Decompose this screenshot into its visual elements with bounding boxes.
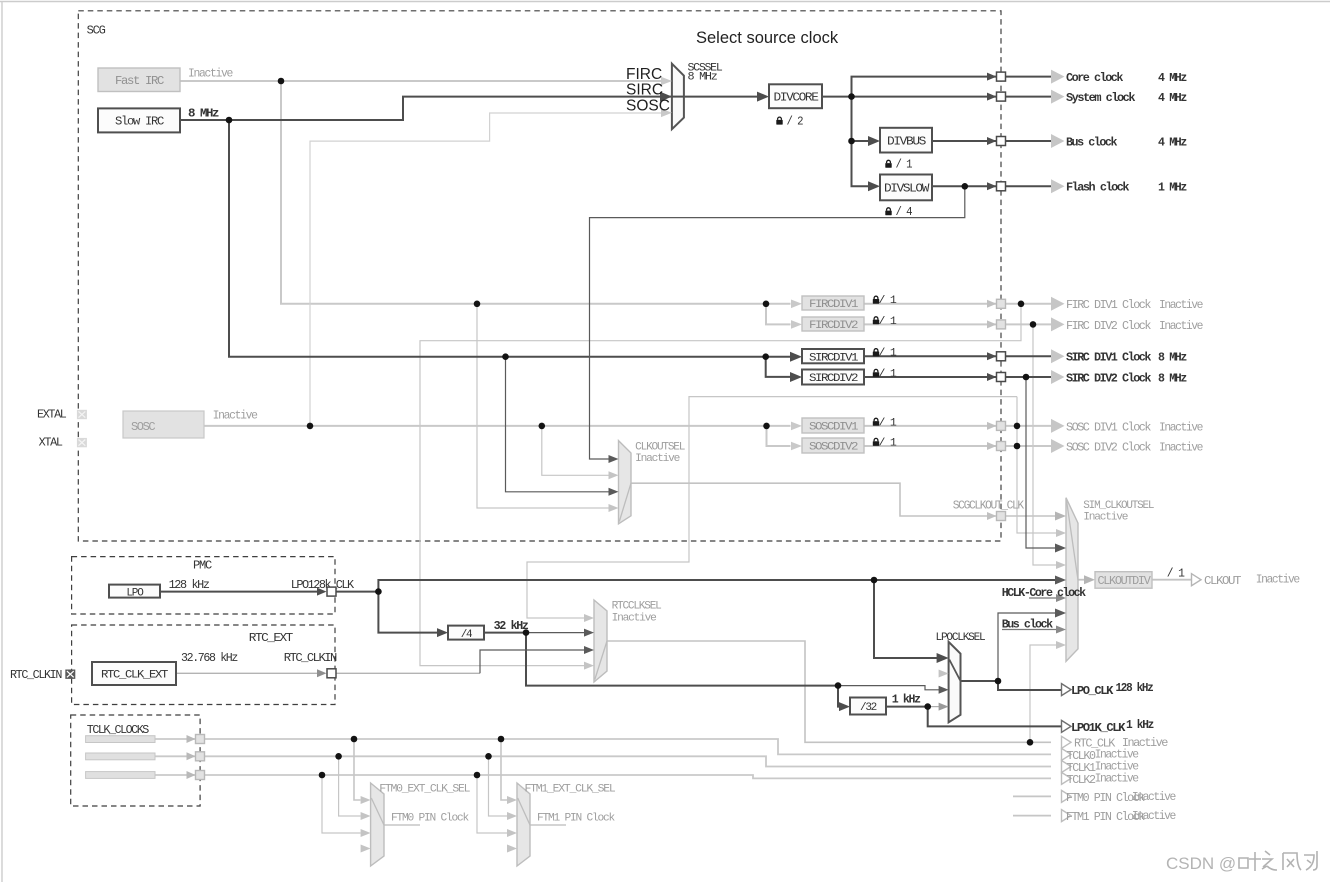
output FTM1 PIN Clock: [1062, 810, 1072, 822]
lock SOSCDIV1: [873, 418, 879, 426]
output CLKOUT: [1192, 574, 1202, 586]
wire CLKOUTSEL output to SCGCLKOUT_CLK pin to SIM input 1: [631, 483, 997, 516]
box Slow IRC (active): [98, 108, 180, 132]
svg-text:/ 4: / 4: [896, 205, 913, 219]
wire SIRCDIV2 output to SIRC DIV2 Clock: [864, 376, 997, 378]
svg-text:/ 1: / 1: [879, 417, 898, 429]
output SIRC DIV2 Clock: [1051, 370, 1065, 384]
wire FTM0 mux output stub: [384, 824, 420, 826]
svg-text:LPO_CLK: LPO_CLK: [1071, 684, 1114, 698]
wire TCLK1: [155, 755, 196, 757]
output TCLK2: [1062, 772, 1072, 784]
svg-text:/ 1: / 1: [879, 316, 898, 328]
junction SOSC-CLKOUTSEL: [539, 423, 546, 430]
svg-text:/ 1: / 1: [1167, 567, 1185, 581]
junction FIRC wire: [278, 78, 285, 85]
mux RTCCLKSEL: [594, 600, 607, 682]
wire /32 output 1kHz: [886, 706, 928, 708]
arrows SIM_CLKOUTSEL inputs: [1055, 512, 1066, 521]
box CLKOUTDIV: [1095, 572, 1152, 589]
svg-text:128 kHz: 128 kHz: [1116, 681, 1154, 695]
wire RTCCLKSEL output to RTC_CLK: [607, 641, 1051, 742]
junction RTC_CLK: [1027, 739, 1034, 746]
wire TCLK2 to FTM0 mux input 3: [322, 775, 361, 833]
xpin EXTAL: [77, 410, 87, 419]
wire TCLK0 to FTM1 mux input 1: [501, 739, 507, 800]
wire FTM1 PIN Clock output stub: [1013, 815, 1051, 817]
output TCLK1: [1062, 761, 1072, 773]
box FIRCDIV1: [802, 296, 864, 310]
wire Bus clock stub to SIM input 8: [1002, 629, 1059, 631]
wire FIRCDIV1 clock feedback to RTCCLKSEL input 4: [420, 304, 1021, 666]
svg-text:HCLK-Core clock: HCLK-Core clock: [1002, 586, 1086, 600]
junction SOSC-SCSSEL: [307, 423, 314, 430]
page top border: [0, 1, 1330, 3]
svg-text:CLKOUTSEL: CLKOUTSEL: [635, 441, 685, 453]
svg-text:DIVCORE: DIVCORE: [774, 91, 819, 105]
wire SOSCDIV2 output to SOSC DIV2 Clock: [864, 445, 997, 447]
svg-text:Inactive: Inactive: [188, 67, 233, 81]
junction SIRC DIV2 out: [1023, 374, 1030, 381]
junction TCLK0-FTM1: [498, 736, 505, 743]
svg-text:FIRCDIV1: FIRCDIV1: [809, 299, 859, 311]
svg-text:PMC: PMC: [193, 559, 212, 573]
output LPO1K_CLK: [1062, 720, 1072, 732]
wire SOSCDIV1 output to SOSC DIV1 Clock: [864, 425, 997, 427]
svg-text:FTM0 PIN Clock: FTM0 PIN Clock: [391, 813, 470, 825]
svg-text:FTM0_EXT_CLK_SEL: FTM0_EXT_CLK_SEL: [379, 784, 470, 796]
junction TCLK0-FTM0: [351, 736, 358, 743]
lock FIRCDIV2: [873, 317, 879, 325]
svg-text:Flash clock: Flash clock: [1066, 181, 1129, 195]
junction 1kHz: [924, 703, 931, 710]
svg-text:SIRC DIV1 Clock: SIRC DIV1 Clock: [1066, 351, 1151, 365]
svg-text:LPOCLKSEL: LPOCLKSEL: [936, 632, 986, 644]
svg-text:Fast IRC: Fast IRC: [115, 74, 164, 88]
svg-text:/ 1: / 1: [879, 368, 898, 380]
wire FIRCDIV2 branch: [766, 304, 791, 325]
TCLK pin arrows: [187, 735, 196, 743]
svg-text:CLKOUTDIV: CLKOUTDIV: [1098, 575, 1151, 588]
wire SIRCDIV2 branch: [766, 357, 791, 377]
pin arrow at SCG border y=516: [987, 512, 997, 520]
svg-text:/ 2: / 2: [787, 114, 804, 128]
arrow DIVCORE input: [757, 92, 769, 102]
svg-text:SOSCDIV1: SOSCDIV1: [809, 422, 859, 434]
RTC_EXT container dashed: [72, 625, 335, 705]
wire RTC_CLK_EXT output to RTC_CLKIN pin: [176, 672, 322, 674]
arrows FIRCDIV inputs: [791, 300, 802, 309]
SCG container dashed: [78, 11, 1001, 541]
wire /4 output 32kHz: [484, 632, 526, 634]
svg-text:TCLK2: TCLK2: [1067, 774, 1097, 787]
lock SIRCDIV2: [873, 369, 879, 377]
junction DIVBUS feed: [848, 138, 855, 145]
svg-text:LPO128k_CLK: LPO128k_CLK: [291, 578, 355, 592]
svg-text:Inactive: Inactive: [1159, 420, 1203, 434]
pin arrow at SCG border y=141: [987, 137, 997, 145]
pin LPO128k_CLK: [317, 588, 327, 596]
box SOSC (inactive): [123, 411, 204, 438]
wire FIRCDIV1 output to FIRC DIV1 Clock: [864, 303, 997, 305]
PMC container dashed: [72, 557, 335, 614]
svg-text:SIRC DIV2 Clock: SIRC DIV2 Clock: [1066, 371, 1151, 385]
wire FIRC down to CLKOUTSEL input 4: [477, 304, 611, 508]
box Fast IRC (inactive): [98, 68, 180, 92]
pin arrow at SCG border y=446: [987, 442, 997, 450]
svg-text:FIRC DIV2 Clock: FIRC DIV2 Clock: [1066, 319, 1151, 333]
wire 32kHz down to /32 divider: [526, 633, 842, 707]
wire DIVSLOW feedback to CLKOUTSEL input 1: [590, 186, 965, 459]
svg-text:FIRC: FIRC: [626, 66, 662, 83]
pin arrow at SCG border y=356.3: [987, 352, 997, 360]
svg-text:/ 1: / 1: [896, 158, 913, 172]
arrows SIRCDIV inputs: [790, 352, 802, 362]
junction LPO128k: [375, 588, 382, 595]
svg-text:RTC_EXT: RTC_EXT: [249, 631, 293, 645]
wire 32kHz to RTCCLKSEL input 2: [526, 632, 587, 634]
svg-text:DIVSLOW: DIVSLOW: [884, 182, 930, 196]
pin arrow at SCG border y=76.6: [987, 73, 997, 81]
xpin RTC_CLKIN: [65, 670, 75, 679]
arrows SOSCDIV inputs: [791, 422, 802, 431]
svg-text:/ 1: / 1: [879, 437, 898, 449]
svg-text:SCGCLKOUT_CLK: SCGCLKOUT_CLK: [953, 500, 1024, 513]
svg-text:RTC_CLKIN: RTC_CLKIN: [10, 668, 62, 682]
wire SIM output to CLKOUTDIV to CLKOUT: [1078, 579, 1091, 581]
junction SOSCDIV2 feed: [763, 423, 770, 430]
wire SIRC feed down to SIRCDIV1: [229, 120, 791, 357]
junction SOSC DIV2 out: [1014, 443, 1021, 450]
svg-text:Inactive: Inactive: [1159, 319, 1203, 333]
svg-text:FIRCDIV2: FIRCDIV2: [809, 320, 858, 332]
wire TCLK2: [155, 774, 196, 776]
lock DIVBUS /1: [885, 160, 891, 168]
arrow into /4: [437, 628, 448, 637]
box FIRCDIV2: [802, 317, 864, 331]
svg-text:SOSC DIV2 Clock: SOSC DIV2 Clock: [1066, 440, 1151, 454]
box LPO: [109, 585, 160, 598]
output Core clock: [1051, 70, 1065, 84]
svg-text:4 MHz: 4 MHz: [1158, 91, 1187, 105]
svg-text:/32: /32: [860, 702, 877, 714]
svg-text:4 MHz: 4 MHz: [1158, 135, 1187, 149]
wire TCLK2 to FTM1 mux input 3: [477, 775, 507, 833]
output TCLK0: [1062, 748, 1072, 760]
arrow DIVBUS input: [868, 136, 880, 146]
pin arrow at SCG border y=324.4: [987, 320, 997, 328]
mux FTM1_EXT_CLK_SEL: [517, 783, 530, 866]
arrows FTM0 mux inputs: [361, 796, 371, 804]
svg-text:/4: /4: [461, 629, 473, 641]
wire DIVSLOW output to Flash clock: [932, 185, 997, 187]
TCLK_CLOCKS container dashed: [71, 715, 200, 806]
junction FIRC-CLKOUTSEL: [474, 301, 481, 308]
junction LPO_CLK: [995, 678, 1002, 685]
svg-text:Core clock: Core clock: [1066, 71, 1123, 85]
box SOSCDIV1: [802, 418, 864, 433]
wire branch down to DIVBUS and DIVSLOW: [852, 97, 872, 187]
junction FIRCDIV2 feed: [763, 301, 770, 308]
svg-text:Inactive: Inactive: [635, 453, 680, 465]
svg-text:8 MHz: 8 MHz: [188, 107, 219, 121]
output SOSC DIV2 Clock: [1051, 439, 1065, 453]
wire FIRCDIV2 output to FIRC DIV2 Clock: [864, 323, 997, 325]
lock FIRCDIV1: [873, 296, 879, 304]
arrow SIRC into SCSSEL: [660, 92, 672, 102]
mux FTM0_EXT_CLK_SEL: [371, 783, 384, 866]
lock DIVSLOW /4: [885, 208, 891, 216]
svg-text:TCLK0: TCLK0: [1067, 750, 1097, 763]
TCLK bar 3: [86, 772, 155, 779]
junction SIRC wire: [226, 117, 233, 124]
mux SCSSEL: [672, 64, 684, 130]
pin arrow at SCG border y=377: [987, 373, 997, 381]
svg-text:RTC_CLKIN: RTC_CLKIN: [284, 651, 337, 665]
svg-text:8 MHz: 8 MHz: [1158, 371, 1187, 385]
wire SOSC up to SCSSEL mux SOSC input: [310, 113, 663, 426]
wire SOSC DIV1 to RTCCLKSEL input 1 (channel y=397): [527, 397, 1017, 618]
svg-text:System clock: System clock: [1066, 91, 1135, 105]
wire 1kHz to LPOCLKSEL input 4: [928, 706, 939, 708]
junction 32kHz: [523, 629, 530, 636]
output SIRC DIV1 Clock: [1051, 349, 1065, 363]
mux SIM_CLKOUTSEL: [1066, 498, 1078, 662]
svg-text:CLKOUT: CLKOUT: [1204, 574, 1241, 588]
TCLK bar 2: [86, 753, 155, 760]
output FTM0 PIN Clock: [1062, 790, 1072, 802]
wire SOSCDIV2 branch: [767, 426, 791, 446]
wire Slow IRC 8MHz to SCSSEL mux (through) to DIVCORE: [180, 97, 761, 120]
output Bus clock: [1051, 134, 1065, 148]
svg-text:SIM_CLKOUTSEL: SIM_CLKOUTSEL: [1083, 500, 1154, 512]
svg-text:Select source clock: Select source clock: [696, 29, 839, 47]
box DIVSLOW: [880, 175, 932, 201]
svg-text:Inactive: Inactive: [213, 409, 258, 423]
junction FIRC DIV2 out: [1030, 321, 1037, 328]
mux LPOCLKSEL: [949, 642, 961, 723]
wire LPOCLKSEL output to LPO_CLK: [961, 681, 1062, 690]
wire HCLK-Core clock stub to SIM input 6: [1029, 597, 1059, 599]
wire SOSC inactive output to SOSCDIV1: [204, 425, 791, 427]
svg-text:LPO: LPO: [126, 587, 144, 599]
box SIRCDIV1: [802, 349, 864, 363]
svg-text:8 MHz: 8 MHz: [1158, 351, 1187, 365]
wire TCLK0 to FTM0 mux input 1: [354, 739, 361, 800]
svg-text:4 MHz: 4 MHz: [1158, 71, 1187, 85]
wire LPO128k to SIM input 5 (HCLK row): [336, 580, 1059, 592]
junction DIVCORE out: [848, 93, 855, 100]
junction TCLK1-FTM1: [485, 753, 492, 760]
svg-text:Bus clock: Bus clock: [1002, 618, 1053, 632]
mux CLKOUTSEL: [619, 441, 632, 524]
arrow DIVSLOW input: [868, 181, 880, 191]
svg-text:SIRC: SIRC: [626, 82, 663, 99]
svg-text:Inactive: Inactive: [1159, 440, 1203, 454]
svg-text:SOSC: SOSC: [131, 420, 155, 434]
svg-text:FIRC DIV1 Clock: FIRC DIV1 Clock: [1066, 298, 1151, 312]
svg-text:RTCCLKSEL: RTCCLKSEL: [612, 601, 662, 613]
svg-text:1 MHz: 1 MHz: [1158, 181, 1187, 195]
svg-text:Inactive: Inactive: [1132, 790, 1176, 804]
arrows LPOCLKSEL inputs: [937, 653, 949, 663]
wire LPO output to LPO128k_CLK pin: [160, 591, 322, 593]
wire Fast IRC inactive to mux FIRC input: [180, 80, 663, 82]
svg-text:/ 1: / 1: [879, 295, 898, 307]
svg-text:SOSCDIV2: SOSCDIV2: [809, 442, 858, 454]
output Flash clock: [1051, 179, 1065, 193]
svg-text:Inactive: Inactive: [1083, 512, 1128, 524]
pin arrow at SCG border y=425.9: [987, 422, 997, 430]
wire DIVCORE output branches: [822, 96, 997, 98]
svg-text:Slow IRC: Slow IRC: [115, 115, 164, 129]
wire FIRCDIV2 clock down to SIM_CLKOUTSEL input 4: [1033, 324, 1059, 565]
junction SIRCDIV2 feed: [762, 353, 769, 360]
svg-text:SOSC: SOSC: [626, 98, 670, 115]
output FIRC DIV2 Clock: [1051, 317, 1065, 331]
arrow into /32: [839, 702, 850, 711]
wire SOSC down to CLKOUTSEL input 2: [542, 426, 611, 475]
junction 32kHz-div32: [835, 682, 842, 689]
pin arrow at SCG border y=96.6: [987, 93, 997, 101]
svg-text:SCG: SCG: [87, 24, 106, 38]
svg-text:EXTAL: EXTAL: [37, 409, 67, 422]
junction SOSC DIV1 out: [1014, 423, 1021, 430]
svg-text:Inactive: Inactive: [612, 612, 657, 624]
wire FTM0 PIN Clock output stub: [1013, 795, 1051, 797]
box SOSCDIV2: [802, 438, 864, 453]
svg-text:CSDN @: CSDN @: [1166, 854, 1236, 873]
svg-text:/ 1: / 1: [879, 348, 898, 360]
svg-text:FTM1 PIN Clock: FTM1 PIN Clock: [537, 813, 616, 825]
box SIRCDIV2: [802, 370, 864, 385]
page left border: [1, 1, 3, 882]
box DIVCORE: [769, 84, 822, 108]
pin RTC_CLKIN: [317, 669, 327, 677]
junction LPO-LPOCLKSEL: [871, 577, 878, 584]
junction SIRC-CLKOUTSEL: [502, 353, 509, 360]
svg-text:32.768 kHz: 32.768 kHz: [181, 651, 238, 665]
wire FIRC branch down to FIRCDIV feed: [281, 81, 791, 304]
svg-text:Inactive: Inactive: [1095, 772, 1139, 786]
wire SIRC to CLKOUTSEL input 3: [506, 357, 611, 492]
svg-text:Bus clock: Bus clock: [1066, 135, 1117, 149]
svg-text:1 kHz: 1 kHz: [892, 693, 921, 707]
box /32: [850, 698, 886, 715]
wire RTC_CLK up to SIM input 9: [1030, 645, 1059, 742]
svg-text:LPO1K_CLK: LPO1K_CLK: [1071, 721, 1126, 735]
wire RTC_CLKIN to RTCCLKSEL input 3: [336, 672, 480, 674]
wire LPO to /4 divider: [378, 592, 439, 633]
svg-text:RTC_CLK_EXT: RTC_CLK_EXT: [101, 670, 169, 682]
wire LPO_CLK up to SIM input 7: [998, 613, 1059, 681]
arrows CLKOUTSEL inputs: [609, 455, 619, 463]
wire 1kHz down to LPO1K_CLK: [928, 707, 1061, 727]
box DIVBUS: [880, 128, 932, 153]
wire TCLK1 to FTM0 mux input 2: [339, 756, 361, 816]
arrow into CLKOUTDIV: [1084, 575, 1095, 584]
wire LPO128k down to LPOCLKSEL input 1: [874, 580, 939, 658]
junction TCLK2-FTM1: [474, 772, 481, 779]
wire SOSC DIV1 vertical to RTCCLKSEL route and SIM input 2: [1017, 397, 1059, 533]
junction TCLK2-FTM0: [319, 772, 326, 779]
svg-text:128 kHz: 128 kHz: [169, 578, 210, 592]
svg-text:XTAL: XTAL: [39, 436, 63, 449]
junction FIRC DIV1 out: [1018, 301, 1025, 308]
pin arrow at SCG border y=186.3: [987, 182, 997, 190]
svg-text:SIRCDIV2: SIRCDIV2: [809, 373, 858, 385]
junction TCLK1-FTM0: [335, 753, 342, 760]
svg-text:SIRCDIV1: SIRCDIV1: [809, 352, 859, 364]
box RTC_CLK_EXT: [92, 662, 176, 685]
junction DIVSLOW out: [962, 183, 969, 190]
wire TCLK1 to FTM1 mux input 2: [489, 756, 508, 816]
lock SOSCDIV2: [873, 438, 879, 446]
svg-text:Inactive: Inactive: [1132, 809, 1176, 823]
lock SIRCDIV1: [873, 349, 879, 357]
wire FTM1 mux output stub: [530, 824, 566, 826]
pin arrow at SCG border y=303.8: [987, 300, 997, 308]
svg-text:SOSC DIV1 Clock: SOSC DIV1 Clock: [1066, 420, 1151, 434]
wire TCLK0: [155, 738, 196, 740]
svg-text:Inactive: Inactive: [1256, 573, 1300, 587]
xpin XTAL: [77, 438, 87, 447]
svg-text:TCLK_CLOCKS: TCLK_CLOCKS: [87, 723, 149, 737]
output LPO_CLK: [1062, 684, 1072, 696]
wire DIVBUS output to Bus clock: [932, 140, 997, 142]
output RTC_CLK: [1062, 736, 1072, 748]
svg-text:Inactive: Inactive: [1159, 298, 1203, 312]
TCLK bar 1: [86, 736, 155, 743]
output System clock: [1051, 90, 1065, 104]
svg-text:8 MHz: 8 MHz: [688, 72, 718, 84]
output SOSC DIV1 Clock: [1051, 419, 1065, 433]
svg-text:FTM1_EXT_CLK_SEL: FTM1_EXT_CLK_SEL: [525, 784, 616, 796]
arrow SOSC into SCSSEL: [661, 109, 672, 118]
arrows RTCCLKSEL inputs: [584, 614, 594, 622]
lock DIVCORE /2: [776, 117, 782, 125]
wire SIRC DIV2 down to SIM input 3: [1026, 377, 1059, 548]
svg-text:1 kHz: 1 kHz: [1126, 718, 1154, 732]
wire 32kHz to LPOCLKSEL input 3: [838, 686, 939, 690]
box /4: [448, 626, 484, 640]
output FIRC DIV1 Clock: [1051, 297, 1065, 311]
TCLK pins: [196, 735, 205, 744]
arrow FIRC into SCSSEL: [661, 77, 672, 86]
svg-text:DIVBUS: DIVBUS: [887, 134, 926, 148]
wire SIRCDIV1 output to SIRC DIV1 Clock: [864, 355, 997, 357]
arrows FTM1 mux inputs: [507, 796, 517, 804]
